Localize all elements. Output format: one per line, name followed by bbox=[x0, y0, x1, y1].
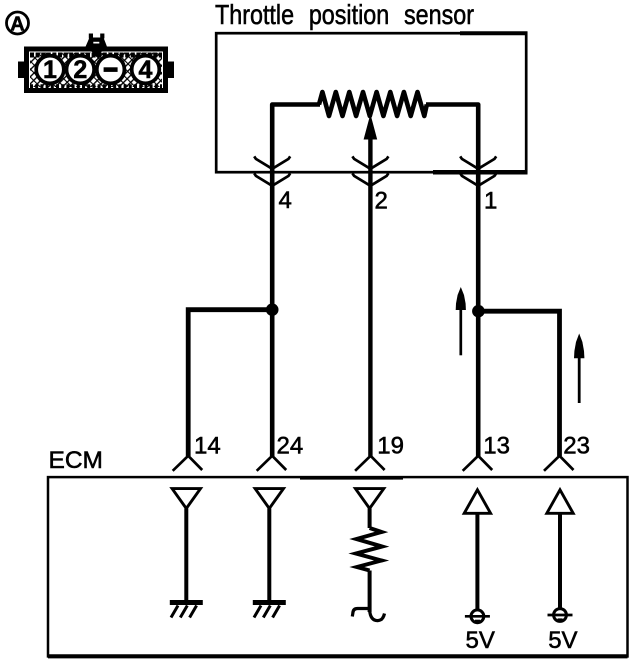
svg-text:1: 1 bbox=[484, 188, 497, 215]
svg-text:5V: 5V bbox=[466, 627, 495, 654]
ECM connector chevron pin 24 bbox=[257, 456, 287, 471]
junction dot at pin 4 wire bbox=[266, 303, 279, 316]
svg-text:1: 1 bbox=[43, 56, 57, 84]
connector A pictorial: top lock tab bbox=[86, 34, 108, 58]
svg-text:4: 4 bbox=[139, 56, 153, 84]
internal wire pin 14 bbox=[184, 509, 188, 601]
ECM output triangle at pin 23 bbox=[547, 490, 573, 514]
in-line connector at sensor pin 1 bbox=[460, 156, 496, 185]
ECM connector chevron pin 14 bbox=[173, 456, 203, 471]
in-line connector at sensor pin 2 bbox=[352, 156, 388, 185]
throttle position sensor box bbox=[216, 33, 527, 172]
svg-text:A: A bbox=[10, 13, 24, 35]
wire: sensor pin 1 lead down to ECM pin 13 bbox=[426, 105, 478, 457]
wire: branch to ECM pin 14 bbox=[188, 310, 272, 456]
5V supply at pin 13 bbox=[465, 610, 490, 623]
svg-text:Throttle position sensor: Throttle position sensor bbox=[215, 0, 474, 30]
signal direction arrow (left of pin 13 wire) bbox=[456, 287, 466, 355]
potentiometer resistive track bbox=[319, 92, 427, 116]
svg-text:13: 13 bbox=[483, 433, 510, 460]
internal resistor at pin 19 bbox=[356, 528, 382, 571]
potentiometer wiper arrow bbox=[364, 114, 378, 456]
svg-text:2: 2 bbox=[375, 188, 388, 215]
wire: sensor pin 4 lead down to ECM pin 24 bbox=[272, 105, 320, 457]
internal wire pin 24 bbox=[267, 509, 271, 601]
ECM connector chevron pin 19 bbox=[355, 456, 385, 471]
connector A pictorial: left tab bbox=[18, 62, 25, 79]
5V supply at pin 23 bbox=[548, 609, 573, 622]
connector A pictorial: right tab bbox=[168, 62, 175, 79]
svg-text:2: 2 bbox=[73, 56, 87, 84]
in-line connector at sensor pin 4 bbox=[254, 156, 290, 185]
internal wire pin 19 lower bbox=[368, 571, 372, 613]
svg-text:23: 23 bbox=[563, 433, 590, 460]
ground at pin 14 bbox=[170, 603, 203, 618]
internal wire pin 19 upper bbox=[368, 509, 372, 529]
hook (to other circuit) at pin 19 bbox=[352, 609, 384, 621]
ECM box bbox=[48, 477, 628, 656]
internal wire pin 23 bbox=[558, 513, 562, 608]
svg-text:24: 24 bbox=[277, 433, 304, 460]
ECM output triangle at pin 13 bbox=[464, 490, 490, 514]
signal direction arrow (right of pin 23 wire) bbox=[574, 334, 584, 404]
internal wire pin 13 bbox=[475, 513, 479, 610]
connector label A (circled A) bbox=[7, 12, 29, 35]
ECM connector chevron pin 23 bbox=[544, 456, 574, 471]
svg-text:14: 14 bbox=[194, 433, 221, 460]
junction dot at pin 1 wire bbox=[472, 305, 485, 318]
ECM input triangle at pin 14 bbox=[172, 489, 200, 509]
ECM connector chevron pin 13 bbox=[463, 456, 493, 471]
connector A pin 4 cavity bbox=[132, 56, 160, 84]
wire: branch to ECM pin 23 bbox=[478, 311, 559, 456]
connector A pin 3 cavity (no pin, dash) bbox=[97, 56, 125, 84]
connector A pin 2 cavity bbox=[67, 56, 95, 84]
ground at pin 24 bbox=[253, 603, 286, 618]
ECM input triangle at pin 24 bbox=[255, 489, 283, 509]
connector A pin 1 cavity bbox=[36, 56, 64, 84]
svg-text:ECM: ECM bbox=[49, 447, 103, 474]
svg-text:5V: 5V bbox=[548, 627, 577, 654]
svg-text:19: 19 bbox=[377, 433, 404, 460]
connector A pictorial: body bbox=[27, 49, 166, 91]
svg-text:4: 4 bbox=[279, 187, 292, 214]
ECM input triangle at pin 19 bbox=[355, 489, 383, 509]
